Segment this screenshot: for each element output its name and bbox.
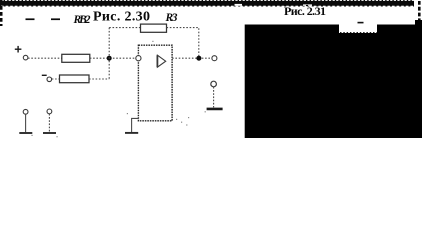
wire from resistor RB2 to summing node [90,57,136,59]
terminal + sign [15,46,22,53]
ground below - input [43,109,56,133]
svg-text:Рис. 2.30: Рис. 2.30 [93,10,150,25]
svg-text:RВ2: RВ2 [73,14,91,26]
op-amp U1 body (rectangle) [138,45,172,121]
resistor (bottom input resistor) [60,75,90,83]
svg-text:Рис. 2.31: Рис. 2.31 [284,4,326,18]
wire vertical riser at node A (feedback up / bottom resistor down) [108,28,110,79]
list dash 1 [26,18,35,20]
wire from - terminal to bottom resistor [52,78,60,80]
op-amp triangle symbol [157,55,165,67]
svg-text:R3: R3 [165,12,178,24]
top dashed border bar of cell [0,1,414,7]
list dash 2 [51,18,60,20]
resistor R3 (feedback) [141,24,167,32]
op-amp input circle (pin) [136,56,141,61]
ground below + input [19,109,32,133]
wire from + terminal to resistor RB2 [28,57,62,59]
node B (output junction) [196,56,201,61]
output terminal circle [212,56,217,61]
input terminal circle (+) [23,55,28,60]
wire feedback top-right segment and drop to output node [167,28,199,59]
left dashed border piece [0,0,3,26]
terminal - sign [42,75,47,76]
ground under op-amp [125,118,138,132]
black image placeholder (fig 2.31) [245,20,422,138]
resistor RB2 (top input resistor) [62,54,90,62]
input terminal circle (-) [47,77,52,82]
wire op-amp output to output terminal [172,57,212,59]
right dashed border piece [418,1,421,23]
wire feedback top-left segment [109,27,140,29]
node A (summing junction) [107,56,112,61]
scan specks [31,41,205,138]
wire from bottom resistor to riser [89,78,109,80]
ground below output terminal [207,81,223,109]
